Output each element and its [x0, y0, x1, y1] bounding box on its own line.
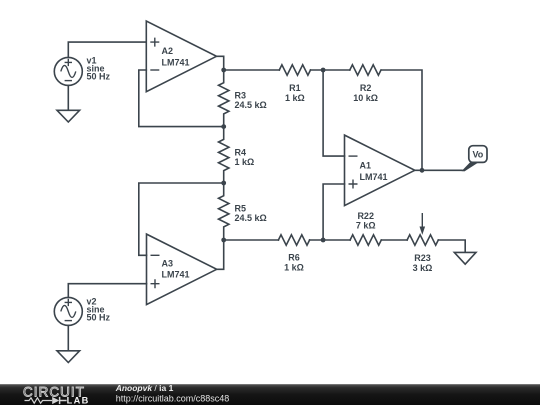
label A3 LM741: [162, 258, 190, 279]
label A1 LM741: [360, 161, 388, 182]
svg-text:R3: R3: [235, 91, 247, 101]
svg-text:R5: R5: [235, 204, 247, 214]
voltage source v1: [54, 57, 82, 85]
resistor R2: [350, 65, 381, 75]
label A2 LM741: [162, 46, 190, 67]
label R3 24.5 kOhm: [235, 91, 267, 111]
label R1 1 kOhm: [285, 83, 305, 103]
label R4 1 kOhm: [235, 147, 255, 167]
node junction R4 R5: [221, 181, 226, 186]
wire A1 output to Vo: [415, 169, 462, 171]
label R5 24.5 kOhm: [235, 204, 267, 224]
label v2 sine 50 Hz: [87, 297, 111, 323]
resistor R22: [350, 235, 381, 245]
label R23 3 kOhm: [413, 253, 433, 273]
svg-text:10 kΩ: 10 kΩ: [353, 93, 378, 103]
node junction R5 R6 A3 out: [221, 238, 226, 243]
ground for R23: [454, 252, 476, 264]
wire A3 output to node: [217, 240, 224, 269]
voltage source v2: [54, 297, 82, 325]
node junction A2 out R3: [221, 68, 226, 73]
wire A2 output to node: [217, 56, 224, 70]
op-amp A2: [146, 21, 216, 92]
svg-text:R22: R22: [357, 211, 374, 221]
wire R1/R2 node to A1 inverting input: [323, 70, 344, 156]
node junction R6 R22: [321, 238, 326, 243]
wire v1 to A2 plus input: [68, 42, 146, 57]
svg-text:1 kΩ: 1 kΩ: [235, 157, 255, 167]
svg-text:LM741: LM741: [162, 270, 190, 280]
resistor R1: [279, 65, 310, 75]
wire v2 to ground: [67, 325, 69, 350]
wire R23 to ground: [438, 240, 465, 252]
svg-text:R1: R1: [289, 83, 301, 93]
svg-text:1 kΩ: 1 kΩ: [284, 263, 304, 273]
output flag Vo: [462, 146, 488, 172]
svg-text:R2: R2: [360, 83, 372, 93]
node junction A1 out R2: [420, 168, 425, 173]
footer bar: [0, 384, 540, 405]
label v1 sine 50 Hz: [87, 56, 111, 82]
label R2 10 kOhm: [353, 83, 378, 103]
wire A3 feedback to R4/R5 node: [139, 183, 224, 255]
svg-text:http://circuitlab.com/c88sc48: http://circuitlab.com/c88sc48: [116, 394, 230, 404]
svg-text:Anoopvk / ia 1: Anoopvk / ia 1: [115, 383, 174, 393]
svg-text:R4: R4: [235, 147, 247, 157]
footer url: [116, 394, 230, 404]
wire node to R1: [224, 69, 280, 71]
svg-text:50 Hz: 50 Hz: [87, 72, 111, 82]
logo CIRCUIT LAB: [23, 384, 90, 405]
svg-text:50 Hz: 50 Hz: [87, 313, 111, 323]
wire v1 to ground: [67, 85, 69, 110]
node junction R1 R2: [321, 68, 326, 73]
op-amp A3: [147, 234, 217, 305]
svg-text:LAB: LAB: [67, 396, 90, 405]
wire R2 to A1 output node: [381, 70, 422, 170]
node junction R3 R4: [221, 124, 226, 129]
svg-text:1 kΩ: 1 kΩ: [285, 93, 305, 103]
svg-text:A3: A3: [162, 258, 174, 268]
wire A2 feedback to R3/R4 node: [139, 70, 224, 127]
resistor R6: [278, 235, 309, 245]
svg-text:24.5 kΩ: 24.5 kΩ: [235, 213, 267, 223]
wire R6 to R22: [310, 239, 351, 241]
resistor R5: [219, 183, 229, 240]
svg-text:24.5 kΩ: 24.5 kΩ: [235, 100, 267, 110]
svg-text:7 kΩ: 7 kΩ: [356, 221, 376, 231]
resistor R3: [219, 70, 229, 127]
wire v2 to A3 plus input: [68, 284, 146, 298]
resistor R23 potentiometer: [407, 213, 438, 245]
wire node to R6: [224, 239, 279, 241]
svg-text:A1: A1: [360, 161, 372, 171]
label R22 7 kOhm: [356, 211, 376, 231]
wire R6/R22 node to A1 non-inverting input: [323, 184, 344, 240]
svg-text:Vo: Vo: [472, 150, 483, 160]
ground for v2: [57, 351, 80, 363]
svg-text:LM741: LM741: [360, 172, 388, 182]
wire R22 to R23: [381, 239, 407, 241]
svg-text:R23: R23: [414, 253, 431, 263]
op-amp A1: [345, 135, 415, 206]
label R6 1 kOhm: [284, 253, 304, 273]
footer text Anoopvk / ia 1: [115, 383, 174, 393]
svg-text:R6: R6: [288, 253, 300, 263]
svg-text:LM741: LM741: [162, 57, 190, 67]
svg-text:A2: A2: [162, 46, 174, 56]
wire R1 to R2: [311, 69, 350, 71]
resistor R4: [219, 127, 229, 183]
svg-text:3 kΩ: 3 kΩ: [413, 263, 433, 273]
ground for v1: [57, 110, 80, 122]
